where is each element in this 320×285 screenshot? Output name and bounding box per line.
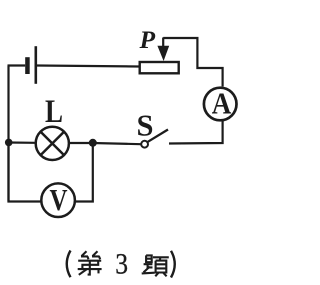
- caption character DI (第): [78, 251, 102, 274]
- voltmeter V: [41, 183, 75, 217]
- node A junction dot: [5, 139, 13, 147]
- ammeter A: [204, 88, 237, 121]
- caption close paren: [171, 251, 175, 278]
- switch S pivot: [141, 141, 148, 148]
- caption character TI (题): [142, 255, 169, 276]
- node B junction dot: [89, 139, 97, 147]
- wire top-left: left vertical rail: [7, 66, 9, 202]
- label P: [139, 25, 156, 54]
- rheostat slider arrow: [157, 38, 169, 62]
- caption open paren: [67, 251, 71, 278]
- svg-text:A: A: [212, 86, 232, 121]
- svg-text:P: P: [139, 25, 156, 54]
- svg-text:3: 3: [115, 247, 128, 280]
- caption digit 3: [115, 247, 128, 280]
- wire: slider to ammeter (up, right, down, right, down): [163, 38, 222, 87]
- label V: [50, 183, 68, 217]
- rheostat P body: [140, 62, 179, 73]
- svg-text:L: L: [45, 94, 63, 130]
- svg-text:V: V: [50, 183, 68, 217]
- wire: voltmeter to node B (right, up): [75, 142, 93, 202]
- wire: node A down to voltmeter: [9, 142, 42, 202]
- wire: ammeter down to bottom-right corner: [169, 121, 223, 144]
- switch S lever: [148, 130, 168, 142]
- wire: node B to switch: [93, 143, 142, 144]
- label A: [212, 86, 232, 121]
- battery cell: [25, 46, 37, 84]
- wire: lamp to node B: [70, 142, 93, 144]
- label L: [45, 94, 63, 130]
- lamp L: [36, 127, 69, 160]
- svg-text:S: S: [137, 109, 154, 143]
- label S: [137, 109, 154, 143]
- wire top: battery negative lead: [8, 64, 26, 66]
- wire: node A to lamp: [9, 141, 35, 144]
- wire top: battery positive to rheostat: [37, 66, 139, 67]
